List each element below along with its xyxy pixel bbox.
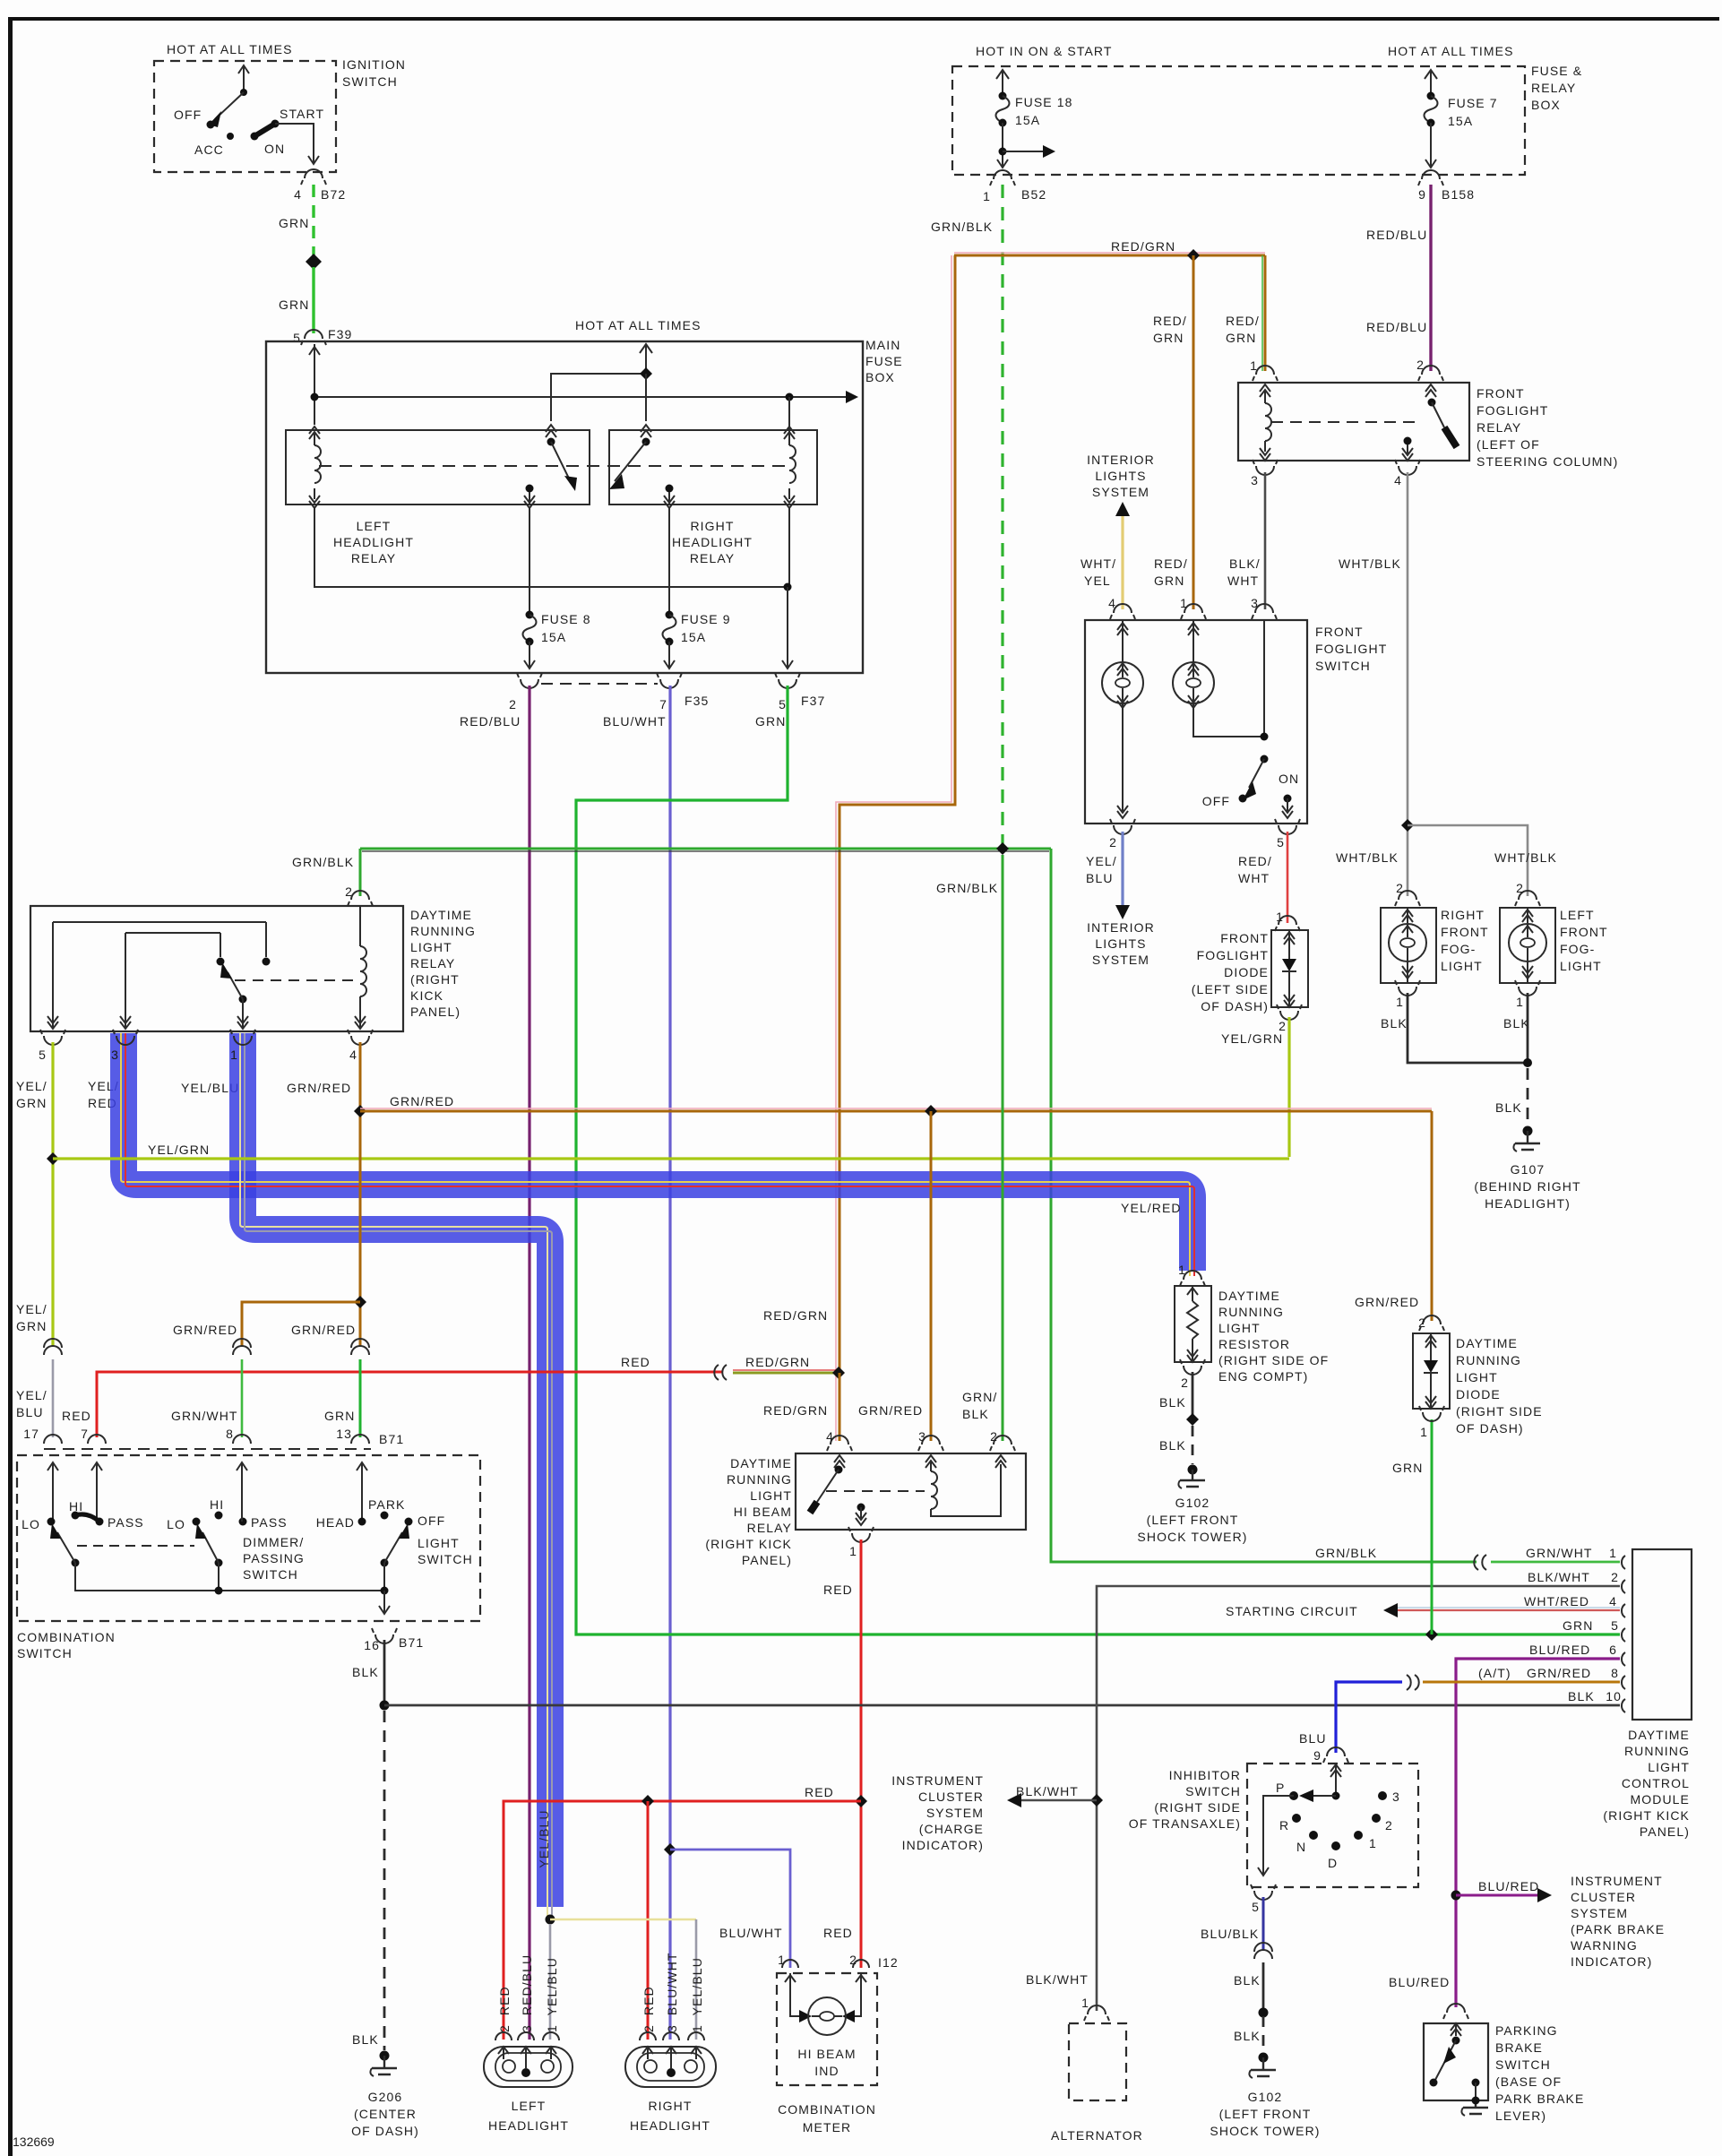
DRL relay switch arm [239,996,247,1004]
wire WHT/YEL to interior lights [1121,515,1124,609]
svg-text:WHT/: WHT/ [1081,556,1116,571]
svg-text:3 RED/BLU: 3 RED/BLU [520,1954,534,2032]
svg-text:FOGLIGHT: FOGLIGHT [1477,403,1548,418]
wire YEL/GRN horizontal net [53,1157,1289,1160]
wire GRN/BLK into hi-beam pin2 [1002,855,1004,1441]
daytime running light hi beam relay box [796,1453,1026,1530]
svg-text:RED/: RED/ [1154,556,1188,571]
hi-beam relay link dashed [826,1490,925,1492]
connector DRL relay pin5 [44,1036,62,1045]
svg-text:BLK: BLK [962,1407,989,1421]
right relay coil [784,427,795,439]
svg-text:(RIGHT SIDE OF: (RIGHT SIDE OF [1218,1353,1329,1367]
inhibitor switch box [1247,1764,1418,1887]
splice connector (YEL/GRN to YEL/BLU) [44,1339,62,1355]
svg-text:WARNING: WARNING [1571,1938,1638,1953]
svg-text:SWITCH: SWITCH [342,74,398,89]
svg-text:5: 5 [779,697,787,711]
svg-text:PARKING: PARKING [1495,2023,1558,2038]
svg-text:CLUSTER: CLUSTER [1571,1890,1636,1904]
svg-text:HOT IN ON & START: HOT IN ON & START [976,44,1113,58]
junction WHT/BLK [1401,819,1414,832]
wire BLU/WHT branch to meter pin1 [670,1850,790,1968]
inhibitor common entry [1330,1764,1341,1796]
connector meter pin2 [853,1960,869,1968]
svg-text:(RIGHT: (RIGHT [410,972,460,987]
switch lamp 2 (indicator) [1188,620,1199,662]
foglight relay switch [1425,384,1436,397]
svg-text:HI BEAM: HI BEAM [734,1505,792,1519]
svg-text:1: 1 [1180,596,1188,610]
svg-text:I12: I12 [878,1955,899,1970]
wire BLK foglights join [1408,993,1528,1063]
svg-text:RUNNING: RUNNING [1456,1353,1521,1367]
junction RED distribution [855,1795,867,1807]
svg-text:1: 1 [778,1953,786,1967]
inhibitor P to pin5 path [1258,1796,1294,1876]
svg-text:GRN/RED: GRN/RED [291,1323,356,1337]
wire BLK long run to module pin10 [384,1704,1620,1707]
svg-text:RIGHT: RIGHT [1441,908,1485,922]
svg-text:FOG-: FOG- [1560,942,1595,956]
START contact and arm [271,120,280,128]
svg-text:PANEL): PANEL) [1640,1824,1690,1839]
connector DRL relay pin2 [351,891,369,900]
svg-text:7: 7 [81,1427,89,1441]
svg-text:FRONT: FRONT [1441,925,1489,939]
svg-text:BLU: BLU [16,1405,44,1419]
inhibitor arm to P [1311,1795,1336,1797]
relay link dashed [319,465,785,467]
svg-text:FRONT: FRONT [1477,386,1525,401]
svg-text:RED/BLU: RED/BLU [1366,228,1427,242]
wire GRN/RED horizontal net [360,1108,1432,1109]
svg-text:INDICATOR): INDICATOR) [902,1838,984,1852]
junction on GRN wire [306,254,322,270]
ignition switch box [154,61,336,172]
svg-text:15A: 15A [1448,114,1473,128]
svg-text:METER: METER [803,2120,852,2134]
svg-text:RED: RED [823,1926,853,1940]
svg-text:YEL/GRN: YEL/GRN [148,1143,210,1157]
svg-text:DAYTIME: DAYTIME [410,908,472,922]
inline connector break GRN/BLK to GRN/WHT [1474,1555,1486,1570]
svg-text:BLU/RED: BLU/RED [1478,1879,1539,1893]
wire GRN/BLK down to module area [1051,849,1477,1562]
svg-text:2: 2 [1516,881,1524,895]
svg-text:PASS: PASS [251,1515,288,1530]
connector DRL relay pin1 (over band) [234,1036,252,1045]
connector DRL relay pin4 [351,1036,369,1045]
connector DRL resistor pin2 [1184,1366,1201,1375]
connector 1 B52 [994,170,1012,179]
svg-text:1: 1 [1369,1836,1377,1850]
foglight relay coil [1260,384,1270,397]
svg-text:4: 4 [1394,473,1402,487]
wire START to B72 [275,124,314,163]
wire RED/GRN segment to hi-beam relay feed [733,1369,839,1371]
svg-text:CLUSTER: CLUSTER [918,1789,984,1804]
wire GRN solid [312,267,314,333]
svg-text:HEADLIGHT): HEADLIGHT) [1485,1196,1571,1211]
right headlight connectors [640,2032,704,2040]
svg-text:GRN: GRN [1392,1461,1423,1475]
svg-text:FRONT: FRONT [1560,925,1608,939]
connector hi-beam relay pin3 [922,1436,940,1445]
svg-text:1: 1 [1250,358,1258,373]
svg-text:G102: G102 [1248,2090,1283,2104]
svg-text:1 YEL/BLU: 1 YEL/BLU [545,1957,559,2032]
svg-text:GRN/RED: GRN/RED [1355,1295,1419,1309]
svg-text:DAYTIME: DAYTIME [1456,1336,1518,1350]
svg-text:WHT: WHT [1238,871,1270,885]
connector inhibitor pin5 [1254,1891,1272,1900]
svg-text:RED/GRN: RED/GRN [745,1355,810,1369]
svg-text:SHOCK TOWER): SHOCK TOWER) [1210,2124,1320,2138]
wire YEL/GRN diode pin2 down to net [1287,1017,1290,1157]
inhibitor contacts R N D 1 2 3 [1292,1814,1301,1823]
svg-text:HOT AT ALL TIMES: HOT AT ALL TIMES [1388,44,1514,58]
svg-text:WHT/BLK: WHT/BLK [1339,556,1401,571]
wire YEL/BLU band end to right headlight pin1 [550,1919,696,1921]
left relay switch [546,425,556,437]
svg-text:RELAY: RELAY [351,551,396,565]
svg-text:BLK: BLK [1159,1438,1186,1453]
svg-text:RED: RED [823,1583,853,1597]
svg-text:N: N [1296,1840,1306,1854]
fuse 18 [1002,72,1003,94]
wire YEL/BLU splice to pin17 [52,1359,55,1437]
fuse and relay box [952,66,1525,175]
connector comb pin17 [44,1435,62,1444]
svg-text:G107: G107 [1511,1162,1545,1177]
right relay switch [641,425,651,437]
ground G206 [380,2051,390,2061]
wire BLK resistor to ground [1192,1372,1194,1416]
svg-text:RUNNING: RUNNING [1218,1305,1284,1319]
svg-text:BLK: BLK [352,1665,379,1679]
dimmer 1 contacts [47,1518,56,1526]
svg-text:(LEFT FRONT: (LEFT FRONT [1147,1513,1239,1527]
svg-text:8: 8 [226,1427,234,1441]
svg-text:INTERIOR: INTERIOR [1087,453,1155,467]
connector left foglight pin2 [1519,891,1537,900]
junction RED to right headlight [641,1795,654,1807]
highlight band YEL/RED circuit [124,1033,1192,1271]
svg-text:D: D [1328,1856,1338,1870]
dimmer link dashed [77,1545,194,1547]
svg-text:YEL/: YEL/ [1086,854,1117,868]
connector left foglight pin1 [1519,987,1537,996]
svg-text:B72: B72 [321,187,346,202]
svg-text:3: 3 [918,1429,926,1444]
connector foglight switch pin4 [1114,604,1132,613]
connector comb pin16 B71 [375,1634,393,1643]
svg-text:FOG-: FOG- [1441,942,1476,956]
right headlight relay box [609,430,817,505]
svg-text:DIMMER/: DIMMER/ [243,1535,304,1549]
wire lamp1 to pin2 [1117,703,1128,818]
svg-text:2: 2 [1418,1315,1426,1330]
main fuse box [266,341,863,673]
svg-text:SWITCH: SWITCH [1315,659,1371,673]
svg-text:2: 2 [1181,1376,1189,1390]
dimmer switch 1 entries [47,1462,58,1522]
svg-text:SWITCH: SWITCH [1495,2057,1551,2072]
connector foglight switch pin1 [1184,604,1202,613]
left front foglight [1500,908,1555,983]
svg-text:(BASE OF: (BASE OF [1495,2074,1562,2089]
svg-text:3: 3 [1392,1789,1400,1804]
svg-text:DAYTIME: DAYTIME [1628,1728,1690,1742]
junction RED/GRN at hi-beam pin4 wire [832,1367,845,1379]
connector hi-beam relay pin4 [831,1436,848,1445]
front foglight diode box [1271,930,1308,1007]
junction YEL/BLU at band end [546,1915,555,1925]
svg-text:SYSTEM: SYSTEM [1092,953,1149,967]
wire BLK dashed to G102 [1262,2016,1265,2052]
svg-text:2: 2 [1396,881,1404,895]
connector hi-beam relay pin1 [852,1533,870,1542]
front foglight switch box [1085,620,1307,824]
svg-text:STEERING COLUMN): STEERING COLUMN) [1477,454,1618,469]
svg-text:MODULE: MODULE [1631,1792,1691,1807]
ACC contact [227,133,234,140]
svg-text:PARK: PARK [368,1497,406,1512]
svg-text:R: R [1279,1818,1289,1833]
svg-text:5: 5 [1277,835,1285,849]
svg-text:4: 4 [294,187,302,202]
svg-text:DAYTIME: DAYTIME [1218,1289,1280,1303]
comb switch common wire [75,1563,384,1591]
svg-text:LO: LO [167,1517,185,1531]
connector diode pin1 [1279,916,1296,925]
svg-text:STARTING CIRCUIT: STARTING CIRCUIT [1226,1604,1358,1618]
wire GRN/BLK drop to DRL relay pin2 [359,849,362,896]
svg-text:INSTRUMENT: INSTRUMENT [891,1773,984,1788]
wire RED branch to right headlight pin2 [647,1801,650,2040]
svg-text:B71: B71 [399,1635,424,1650]
svg-text:B71: B71 [379,1432,404,1446]
svg-text:INSTRUMENT: INSTRUMENT [1571,1874,1663,1888]
svg-text:GRN: GRN [1154,573,1184,588]
svg-text:GRN/RED: GRN/RED [173,1323,237,1337]
svg-text:1: 1 [1396,995,1404,1009]
ground (parking brake) [1463,2100,1488,2114]
svg-text:LIGHTS: LIGHTS [1095,936,1146,951]
connector inhibitor pin9 [1327,1747,1345,1756]
svg-text:YEL/RED: YEL/RED [1121,1201,1182,1215]
junction GRN/RED top [354,1105,366,1117]
svg-text:BLK: BLK [1568,1689,1595,1703]
connector comb pin8 [233,1435,251,1444]
svg-text:HI BEAM: HI BEAM [797,2047,856,2061]
svg-text:PASS: PASS [108,1515,144,1530]
svg-text:10: 10 [1606,1689,1622,1703]
connector pin 2 [521,679,538,688]
wire BLK dashed to G206 [383,1711,386,2050]
fuse 8 [529,508,530,613]
svg-text:3 BLU/WHT: 3 BLU/WHT [665,1952,679,2032]
wire GRN F37 long run to module pin5 [576,686,1620,1634]
svg-text:(RIGHT SIDE: (RIGHT SIDE [1456,1404,1543,1419]
inline connector break BLU to GRN/RED (A/T) [1407,1675,1419,1690]
junction on hot feed [640,367,652,380]
svg-text:GRN/BLK: GRN/BLK [292,855,354,869]
connector foglight relay pin1 [1256,366,1274,375]
svg-text:GRN/RED: GRN/RED [287,1081,351,1095]
svg-text:GRN/WHT: GRN/WHT [171,1409,238,1423]
svg-text:LIGHT: LIGHT [1218,1321,1261,1335]
svg-text:P: P [1276,1781,1285,1795]
svg-text:RED/: RED/ [1238,854,1272,868]
svg-text:SWITCH: SWITCH [1185,1784,1241,1798]
svg-text:GRN: GRN [1226,331,1256,345]
wire BLU inhibitor pin9 up to break [1336,1682,1402,1753]
wire GRN/BLK horizontal net [360,848,1051,850]
svg-text:1: 1 [1516,995,1524,1009]
wire F39 riser [314,344,315,425]
svg-text:15A: 15A [681,630,706,644]
svg-text:4: 4 [826,1429,834,1444]
svg-text:GRN/: GRN/ [962,1390,997,1404]
svg-text:(CHARGE: (CHARGE [919,1822,984,1836]
svg-text:16: 16 [364,1638,380,1652]
hi-beam relay switch [834,1455,845,1468]
fuse 7 [1430,72,1432,94]
svg-text:1 YEL/BLU: 1 YEL/BLU [690,1957,704,2032]
svg-text:GRN: GRN [1153,331,1184,345]
connector comb pin13 [351,1435,369,1444]
connector DRL diode pin1 (bottom) [1423,1412,1441,1421]
svg-text:LIGHT: LIGHT [418,1536,460,1550]
svg-text:GRN: GRN [324,1409,355,1423]
page frame border [8,17,1719,21]
wire BLU/WHT fuse9 to right headlight pin3 [668,686,671,2040]
svg-text:HEADLIGHT: HEADLIGHT [672,535,753,549]
dimmer switch 2 contacts [193,1518,201,1526]
connector foglight switch pin3 [1255,604,1273,613]
svg-text:OF DASH): OF DASH) [1456,1421,1524,1436]
svg-text:COMBINATION: COMBINATION [17,1630,116,1644]
wire GRN/WHT to module pin1 [1491,1561,1620,1564]
svg-text:FOGLIGHT: FOGLIGHT [1197,948,1269,962]
wire pin3 to switch common [1263,620,1265,737]
svg-text:RELAY: RELAY [690,551,735,565]
svg-text:4: 4 [349,1048,357,1062]
svg-text:(PARK BRAKE: (PARK BRAKE [1571,1922,1665,1936]
svg-text:1: 1 [1276,910,1284,924]
svg-text:KICK: KICK [410,988,443,1003]
svg-text:3: 3 [1251,596,1259,610]
svg-text:RELAY: RELAY [1531,81,1576,95]
svg-text:PASSING: PASSING [243,1551,305,1565]
svg-text:CONTROL: CONTROL [1622,1776,1690,1790]
svg-text:BLK: BLK [1381,1016,1408,1031]
DRL relay inner wiring [53,922,266,1022]
splice connector BLU/BLK to BLK [1254,1943,1272,1959]
splice connector (GRN/RED to GRN) [351,1339,369,1355]
hot rail wire [314,396,848,398]
svg-text:GRN/RED: GRN/RED [1527,1666,1591,1680]
svg-text:BOX: BOX [1531,98,1561,112]
svg-text:BLU: BLU [1299,1731,1327,1746]
connector 4 B72 [305,169,323,178]
svg-text:LEFT: LEFT [357,519,392,533]
wire BLU/RED branch to instrument cluster [1456,1894,1537,1897]
svg-text:SYSTEM: SYSTEM [1092,485,1149,499]
junction on RED/GRN feed [1187,249,1200,262]
svg-text:5: 5 [1252,1900,1260,1914]
wire RED to left headlight pin2 [504,1801,861,2040]
svg-text:2: 2 [345,884,353,899]
svg-text:RED: RED [621,1355,650,1369]
wire YEL/BLU band end to left headlight pin1 [549,1924,552,2040]
wire GRN/RED branch to splice 8 [242,1302,360,1347]
svg-text:2 RED: 2 RED [497,1986,512,2032]
resistor symbol [1187,1286,1198,1301]
svg-text:BLU: BLU [1086,871,1114,885]
svg-text:GRN/BLK: GRN/BLK [936,881,998,895]
svg-text:2: 2 [509,697,517,711]
wire GRN/RED relay pin4 down [359,1042,362,1347]
svg-text:YEL/: YEL/ [16,1079,47,1093]
svg-text:GRN/BLK: GRN/BLK [931,220,993,234]
svg-text:BRAKE: BRAKE [1495,2040,1543,2055]
svg-text:HEADLIGHT: HEADLIGHT [630,2118,710,2133]
svg-text:BLK: BLK [1495,1100,1522,1115]
connector foglight switch pin5 [1279,825,1296,834]
svg-text:13: 13 [336,1427,352,1441]
DRL relay bottom arrows [47,1016,58,1029]
svg-text:ON: ON [264,142,285,156]
svg-text:RUNNING: RUNNING [1624,1744,1690,1758]
left relay coil [309,427,320,439]
svg-text:GRN/WHT: GRN/WHT [1526,1546,1593,1560]
svg-text:GRN/RED: GRN/RED [390,1094,454,1108]
svg-text:1: 1 [1081,1996,1089,2010]
ON contact [251,133,259,141]
connector pin 7 F35 [660,679,678,688]
wire right coil to bottom rail junction [788,508,790,587]
connector DRL relay pin3 [116,1036,134,1045]
svg-text:FUSE 7: FUSE 7 [1448,96,1498,110]
svg-text:FUSE 9: FUSE 9 [681,612,731,626]
svg-text:SWITCH: SWITCH [17,1646,73,1660]
svg-text:9: 9 [1313,1748,1322,1763]
wire WHT/BLK branch to left foglight [1408,825,1528,896]
svg-text:BLU/BLK: BLU/BLK [1201,1927,1259,1941]
connector foglight relay pin4 [1399,466,1416,475]
hi beam indicator lamp [785,1973,866,2016]
svg-text:SYSTEM: SYSTEM [1571,1906,1628,1920]
ignition feed arrow [243,66,245,92]
fuse 9 [668,508,670,613]
junction YEL/GRN [47,1152,59,1165]
svg-text:2: 2 [1385,1818,1393,1833]
svg-text:DAYTIME: DAYTIME [730,1456,792,1470]
svg-text:YEL: YEL [1084,573,1111,588]
svg-text:SYSTEM: SYSTEM [926,1806,984,1820]
svg-text:OF DASH): OF DASH) [351,2124,419,2138]
wire BLK dashed to G107 [1527,1068,1529,1125]
svg-text:ALTERNATOR: ALTERNATOR [1051,2128,1143,2143]
light switch contacts [357,1462,367,1522]
svg-text:BLK: BLK [1503,1016,1530,1031]
svg-text:4: 4 [1609,1594,1617,1608]
connector comb pin7 [88,1435,106,1444]
wire RED hi-beam pin1 down [860,1539,863,1968]
